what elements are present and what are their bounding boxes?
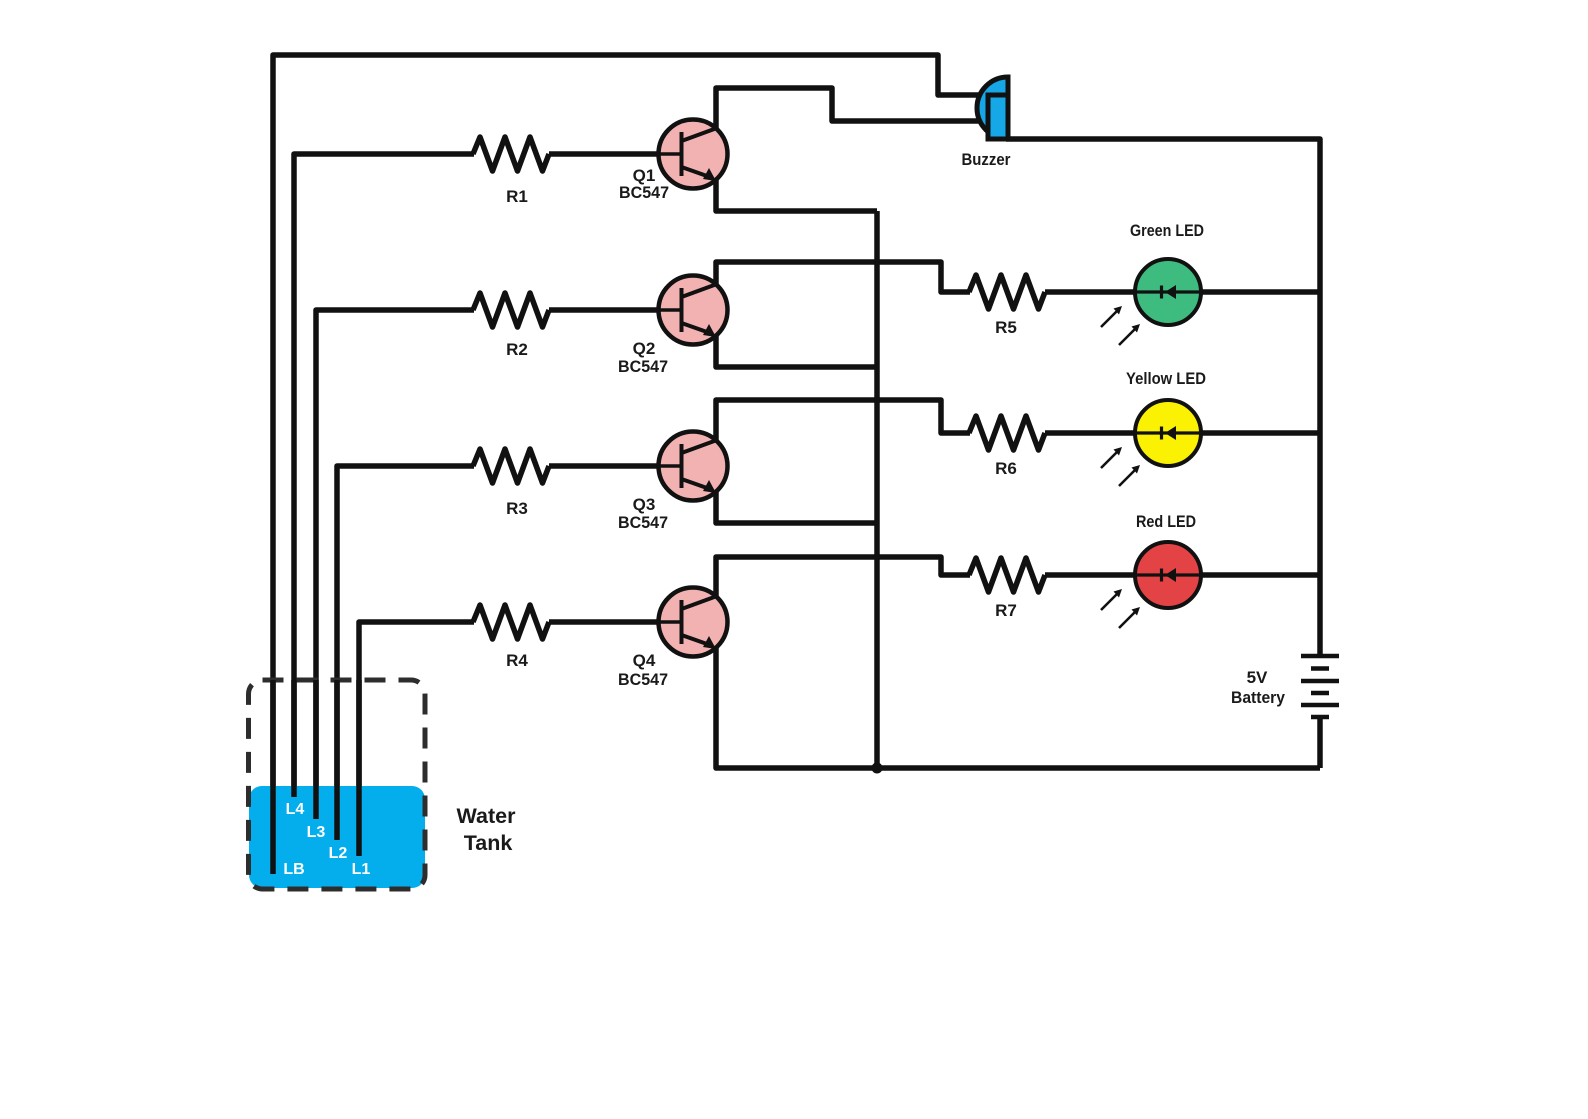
water tank dashed outline [249, 680, 426, 889]
wire Q1 emitter to emitter bus [716, 172, 877, 211]
svg-text:Q3: Q3 [633, 495, 656, 514]
svg-text:Green LED: Green LED [1130, 221, 1204, 240]
battery BT1 5V plates [1301, 656, 1339, 717]
resistor R5 [969, 275, 1045, 309]
svg-text:L1: L1 [352, 861, 371, 878]
svg-text:R6: R6 [995, 459, 1017, 478]
probe L4 [291, 680, 297, 797]
probe L1 [356, 680, 362, 856]
svg-text:R5: R5 [995, 318, 1017, 337]
water tank water fill [249, 786, 425, 888]
svg-text:Red LED: Red LED [1136, 512, 1196, 531]
probe LB [270, 680, 276, 874]
resistor R4 [473, 605, 549, 639]
svg-text:BC547: BC547 [618, 357, 668, 376]
wire R7 to Red LED [1045, 572, 1137, 578]
transistor Q2 BC547 [657, 276, 728, 345]
wire R3 to Q3 base [549, 463, 659, 469]
wire R6 to Yellow LED [1045, 430, 1137, 436]
svg-text:R1: R1 [506, 187, 528, 206]
svg-text:Buzzer: Buzzer [962, 150, 1011, 169]
transistor Q1 BC547 [657, 120, 728, 189]
junction bus to bottom rail [872, 763, 883, 774]
svg-text:BC547: BC547 [619, 183, 669, 202]
wire Q2 emitter to emitter bus [716, 328, 877, 367]
resistor R6 [969, 416, 1045, 450]
svg-text:LB: LB [283, 861, 304, 878]
wire Q4 emitter to bottom rail [716, 640, 1320, 768]
svg-text:R3: R3 [506, 499, 528, 518]
svg-text:R4: R4 [506, 651, 528, 670]
resistor R3 [473, 449, 549, 483]
probe L2 [334, 680, 340, 840]
probe L3 [313, 680, 319, 819]
wire LB probe to top rail to buzzer terminal 1 [273, 55, 992, 874]
resistor R2 [473, 293, 549, 327]
wire Q2 collector to R5 [716, 262, 970, 292]
wire Red LED to right rail [1199, 572, 1320, 578]
wire L4 probe to R1 [294, 154, 474, 797]
wire Yellow LED to right rail [1199, 430, 1320, 436]
wire R4 to Q4 base [549, 619, 659, 625]
wire L1 probe to R4 [359, 622, 474, 856]
wire battery - to bottom rail [1317, 718, 1323, 768]
wire R2 to Q2 base [549, 307, 659, 313]
wire Green LED to right rail [1199, 289, 1320, 295]
resistor R1 [473, 137, 549, 171]
svg-text:L2: L2 [329, 845, 348, 862]
wire R5 to Green LED [1045, 289, 1137, 295]
transistor Q4 BC547 [657, 588, 728, 657]
wire buzzer output to right rail down to battery + [1006, 139, 1320, 654]
svg-text:BC547: BC547 [618, 670, 668, 689]
svg-text:Battery: Battery [1231, 688, 1285, 707]
svg-text:Q2: Q2 [633, 339, 656, 358]
wire L2 probe to R3 [337, 466, 474, 840]
svg-text:R7: R7 [995, 601, 1017, 620]
svg-text:Tank: Tank [464, 831, 513, 855]
svg-text:L3: L3 [307, 824, 326, 841]
LED Green [1101, 259, 1201, 345]
transistor Q3 BC547 [657, 432, 728, 501]
wire L3 probe to R2 [316, 310, 474, 819]
LED Yellow [1101, 400, 1201, 486]
svg-text:BC547: BC547 [618, 513, 668, 532]
svg-text:Q4: Q4 [633, 651, 656, 670]
wire Q1 collector to buzzer terminal 2 [716, 88, 992, 128]
LED Red [1101, 542, 1201, 628]
resistor R7 [969, 558, 1045, 592]
wire Q3 emitter to emitter bus [716, 484, 877, 523]
svg-text:L4: L4 [286, 801, 305, 818]
svg-text:Water: Water [457, 804, 517, 828]
buzzer BZ1 [977, 77, 1008, 139]
wire Q4 collector to R7 [716, 557, 970, 596]
wire R1 to Q1 base [549, 151, 659, 157]
wire emitter bus [874, 211, 880, 768]
svg-text:Yellow LED: Yellow LED [1126, 369, 1206, 388]
svg-text:R2: R2 [506, 340, 528, 359]
svg-text:5V: 5V [1247, 668, 1268, 687]
wire Q3 collector to R6 [716, 400, 970, 440]
